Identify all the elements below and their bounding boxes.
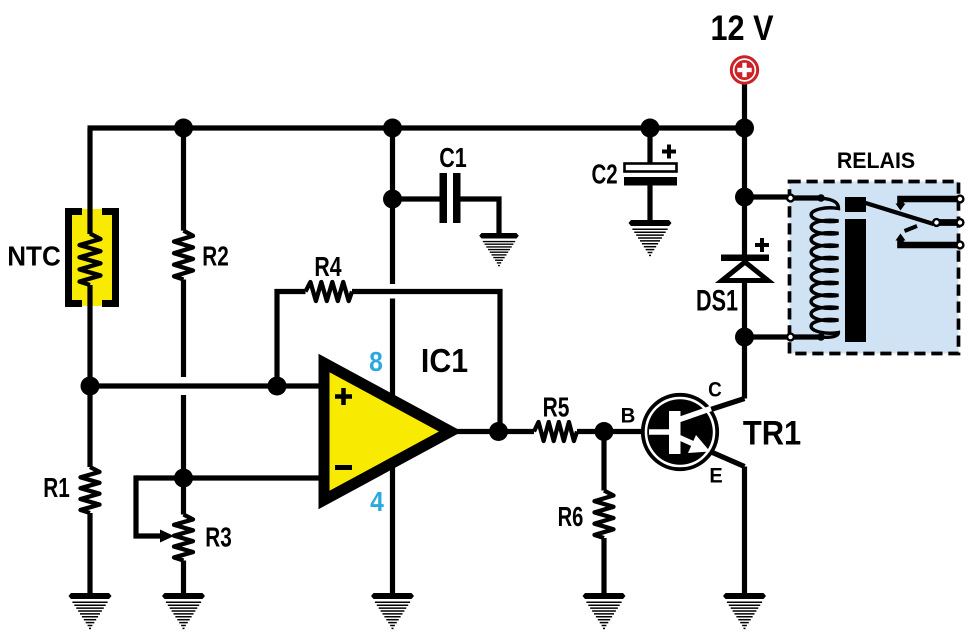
relay core top block [845, 197, 866, 212]
wire C1 left [393, 196, 440, 201]
TR1 emitter arrow [688, 435, 710, 453]
op-amp IC1 [324, 363, 451, 500]
potentiometer R3 wiper arrow [160, 530, 174, 543]
relay NO contact [901, 240, 959, 245]
wire R1 bottom to ground [87, 513, 92, 593]
svg-text:R4: R4 [314, 251, 341, 283]
wire R3 wiper loop [136, 478, 165, 536]
supply 12V terminal [731, 57, 757, 83]
svg-text:12 V: 12 V [711, 8, 774, 47]
svg-text:R3: R3 [205, 523, 231, 554]
node R2 R3 minus-input [174, 469, 193, 488]
svg-text:B: B [621, 404, 636, 427]
wire pin8 below C1 node [390, 199, 395, 284]
wire emitter diagonal [677, 437, 745, 467]
wire R4 left horizontal [275, 289, 306, 294]
diode DS1 [721, 238, 769, 281]
junction node dots [81, 119, 755, 488]
wire plus input [90, 383, 322, 388]
svg-text:E: E [709, 464, 722, 488]
TR1 emitter lead inside [678, 437, 698, 446]
wire left vertical top [87, 128, 92, 234]
resistor R4 [306, 282, 353, 301]
wire C1 right to ground [461, 199, 500, 234]
svg-text:8: 8 [369, 346, 383, 378]
node rail-12V [735, 119, 754, 138]
svg-text:C2: C2 [591, 160, 617, 191]
wire rail to DS1 node [742, 128, 747, 197]
wire base node to transistor [604, 429, 643, 434]
wire R2 bottom segment above crossing [181, 280, 186, 378]
svg-text:R5: R5 [543, 393, 570, 424]
wire collector vertical [742, 337, 747, 399]
relay coil [811, 198, 838, 337]
node R4 plus-input [268, 377, 287, 396]
capacitor C2 [624, 145, 677, 186]
wire R5 to base node [577, 429, 604, 434]
relay contact terminal 2 [957, 219, 964, 226]
ground C2 [629, 220, 672, 255]
node DS1 bottom collector [735, 328, 754, 347]
wire DS1 node to diode [742, 197, 747, 255]
relay NO contact tick [905, 226, 918, 231]
thermistor NTC right bracket [102, 212, 116, 304]
svg-text:R1: R1 [43, 473, 70, 504]
svg-text:NTC: NTC [7, 241, 60, 272]
node pin8 C1 [383, 190, 402, 209]
wire diode to collector node [742, 280, 747, 337]
relay box [790, 182, 959, 354]
wire R2 below crossing to minus node [181, 395, 186, 515]
ground op-amp [371, 593, 414, 628]
wire R4 left vertical [274, 289, 279, 386]
relay coil terminal dots [817, 194, 825, 202]
wire NTC bottom to R1 [87, 285, 92, 467]
wire C2 top [647, 128, 652, 164]
svg-text:DS1: DS1 [696, 283, 738, 317]
relay contact terminal 3 [957, 242, 964, 249]
relay core bar [845, 219, 866, 342]
resistor R5 [534, 422, 577, 441]
wire coil top lead [791, 195, 821, 200]
ground R6 [583, 593, 626, 628]
svg-text:4: 4 [370, 486, 384, 518]
wire collector diagonal [677, 399, 745, 421]
ground C1 [479, 233, 519, 266]
wire top rail [88, 125, 748, 130]
ground R3 [162, 593, 205, 628]
node output [489, 422, 508, 441]
C2 plus sign [662, 145, 676, 159]
relay armature [864, 203, 934, 225]
relay pivot circle [933, 219, 940, 226]
thermistor NTC element [80, 234, 101, 286]
wire DS1 node to relay [745, 194, 792, 199]
node NTC plus-input [81, 377, 100, 396]
svg-text:R2: R2 [202, 242, 228, 273]
svg-text:TR1: TR1 [743, 413, 801, 452]
thermistor NTC left bracket [69, 212, 83, 304]
wire R2 top [181, 128, 186, 231]
svg-text:RELAIS: RELAIS [837, 148, 915, 173]
relay pivot lead [936, 219, 958, 226]
node DS1 top [735, 188, 754, 207]
wire R4 right to output vertical [352, 292, 500, 432]
capacitor C1 [440, 173, 461, 223]
wire pin8 below R4 crossing into op-amp [390, 299, 395, 397]
wire R3 bottom to ground [181, 561, 186, 594]
resistor R6 [595, 491, 614, 539]
svg-text:IC1: IC1 [421, 342, 468, 380]
DS1 plus sign [755, 238, 769, 252]
node rail-C2 [641, 119, 660, 138]
node base R6 [595, 422, 614, 441]
node rail-pin8 [383, 119, 402, 138]
wire R6 top [601, 432, 606, 491]
resistor R1 [81, 467, 100, 513]
transistor TR1 [643, 395, 717, 469]
wire minus input [136, 475, 322, 480]
thermistor NTC body [66, 209, 118, 306]
potentiometer R3 [174, 515, 193, 561]
relay contact terminal 1 [957, 196, 964, 203]
wire emitter vertical to ground [742, 467, 747, 594]
wire pin4 to ground [390, 467, 395, 593]
op-amp minus mark [335, 465, 352, 470]
op-amp plus mark [335, 388, 352, 405]
node rail-R2 [174, 119, 193, 138]
relay coil terminal top [787, 195, 794, 202]
TR1 base lead [649, 429, 669, 435]
wire pin8 from rail [390, 128, 395, 199]
svg-text:C1: C1 [439, 142, 467, 173]
wire C2 bottom to ground [647, 185, 652, 220]
wire R6 bottom to ground [601, 538, 606, 593]
TR1 collector lead inside [678, 409, 711, 421]
ground left [69, 593, 112, 628]
wire coil bottom lead [745, 334, 822, 339]
TR1 base bar [669, 411, 681, 454]
relay NC contact [901, 199, 959, 204]
resistor R2 [174, 231, 193, 280]
wire 12V to rail [742, 82, 747, 128]
ground emitter [723, 593, 766, 628]
relay coil terminal bottom [787, 334, 794, 341]
wire op-amp output [455, 429, 534, 434]
svg-text:R6: R6 [558, 502, 584, 533]
svg-text:C: C [708, 379, 722, 402]
